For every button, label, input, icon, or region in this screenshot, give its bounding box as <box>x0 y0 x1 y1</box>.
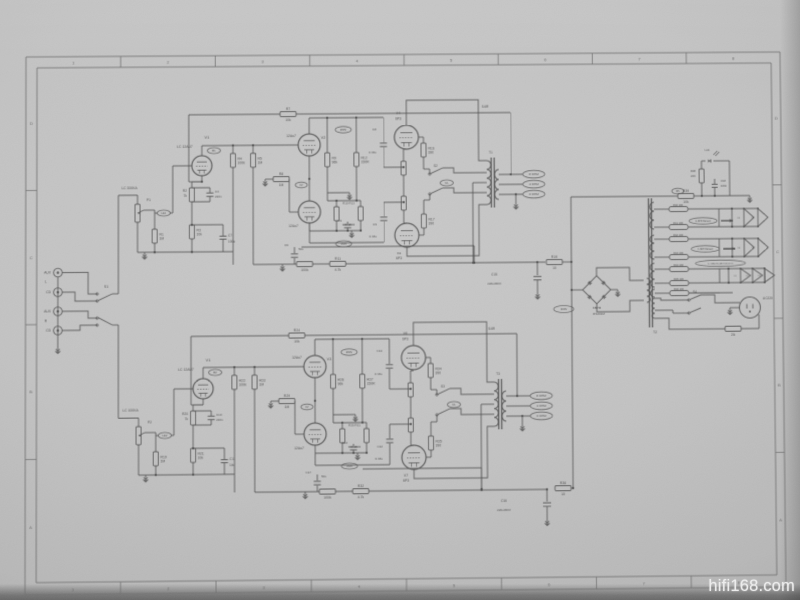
svg-text:T2: T2 <box>653 330 657 334</box>
svg-text:2: 2 <box>167 586 170 591</box>
svg-text:C9: C9 <box>373 222 377 226</box>
svg-text:B: B <box>778 383 781 388</box>
svg-text:2A: 2A <box>731 333 736 337</box>
svg-text:R29: R29 <box>284 394 290 398</box>
svg-text:UL: UL <box>445 181 449 185</box>
svg-text:to 12AU7(12AX7) filament: to 12AU7(12AX7) filament <box>708 262 734 265</box>
svg-text:5.6R: 5.6R <box>488 327 495 331</box>
svg-text:0V: 0V <box>300 183 303 187</box>
svg-text:100k: 100k <box>324 496 332 500</box>
svg-text:LE1: LE1 <box>161 211 166 215</box>
svg-text:V4: V4 <box>396 111 400 115</box>
svg-text:1M: 1M <box>279 183 284 187</box>
svg-text:R11: R11 <box>335 257 341 261</box>
svg-text:390: 390 <box>436 443 442 447</box>
svg-text:6P3: 6P3 <box>395 117 401 121</box>
svg-text:V6: V6 <box>403 332 407 336</box>
svg-text:0 OHM: 0 OHM <box>537 414 547 418</box>
svg-text:4 OHM: 4 OHM <box>537 404 547 408</box>
svg-text:A: A <box>29 525 32 530</box>
svg-text:4.7k: 4.7k <box>335 268 342 272</box>
svg-text:V1: V1 <box>206 357 212 362</box>
svg-text:R8: R8 <box>279 172 283 176</box>
svg-text:7k: 7k <box>183 194 187 198</box>
svg-text:AUX: AUX <box>44 310 52 314</box>
svg-text:3: 3 <box>261 59 264 64</box>
svg-text:150R: 150R <box>367 382 376 386</box>
svg-text:C6: C6 <box>285 243 289 247</box>
svg-text:R: R <box>44 319 47 323</box>
svg-text:V4: V4 <box>737 218 740 220</box>
svg-text:V5: V5 <box>397 251 401 255</box>
svg-text:1M: 1M <box>284 405 289 409</box>
svg-text:V1: V1 <box>204 135 210 140</box>
svg-text:5.6R: 5.6R <box>482 105 489 109</box>
svg-text:R2: R2 <box>183 189 187 193</box>
svg-text:C17: C17 <box>306 470 312 474</box>
svg-text:LC 100KA: LC 100KA <box>122 186 138 190</box>
svg-text:0 OHM: 0 OHM <box>529 192 539 196</box>
svg-text:LC 100KA: LC 100KA <box>123 408 139 412</box>
svg-text:C3: C3 <box>215 190 219 194</box>
svg-text:R24: R24 <box>294 328 300 332</box>
svg-text:R46 100: R46 100 <box>674 287 684 291</box>
svg-text:R20: R20 <box>182 412 188 416</box>
svg-text:6P3: 6P3 <box>396 256 402 260</box>
svg-text:3: 3 <box>263 585 266 590</box>
svg-text:10k: 10k <box>198 456 204 460</box>
svg-text:KBPM: KBPM <box>593 306 602 310</box>
svg-text:C7: C7 <box>228 234 232 238</box>
svg-text:D: D <box>775 116 778 121</box>
svg-text:LC 12AU7: LC 12AU7 <box>177 145 193 149</box>
svg-text:L: L <box>45 280 47 284</box>
svg-text:0.33u: 0.33u <box>375 457 383 461</box>
svg-text:4.7k: 4.7k <box>358 495 365 499</box>
svg-text:C18: C18 <box>721 179 727 183</box>
svg-text:390: 390 <box>435 371 441 375</box>
svg-text:100k: 100k <box>239 383 247 387</box>
svg-text:280V: 280V <box>340 128 347 132</box>
svg-text:C14: C14 <box>377 349 383 353</box>
svg-text:10: 10 <box>561 492 565 496</box>
svg-text:R19: R19 <box>551 255 557 259</box>
svg-text:5: 5 <box>450 58 453 63</box>
svg-text:C10: C10 <box>216 413 222 417</box>
svg-text:V2: V2 <box>321 136 326 140</box>
svg-text:4 OHM: 4 OHM <box>529 182 539 186</box>
svg-text:1M: 1M <box>259 383 264 387</box>
svg-text:R30 R31: R30 R31 <box>348 423 360 427</box>
svg-text:LE2: LE2 <box>162 434 167 438</box>
svg-text:to 6P3 filament: to 6P3 filament <box>695 220 711 223</box>
svg-text:280V: 280V <box>346 350 353 354</box>
svg-text:T1: T1 <box>489 151 493 155</box>
svg-text:C9: C9 <box>338 219 342 223</box>
svg-text:R7: R7 <box>286 107 290 111</box>
svg-text:B1: B1 <box>212 149 216 153</box>
svg-text:R10 R13: R10 R13 <box>343 201 355 205</box>
svg-text:B: B <box>30 389 33 394</box>
svg-text:6: 6 <box>544 57 547 62</box>
svg-text:4: 4 <box>356 58 359 63</box>
svg-text:0.33u: 0.33u <box>369 234 377 238</box>
svg-text:8: 8 <box>732 56 735 61</box>
svg-text:P2: P2 <box>148 420 152 424</box>
svg-text:C15: C15 <box>491 273 497 277</box>
svg-text:V6: V6 <box>738 248 741 250</box>
svg-text:5: 5 <box>453 583 456 588</box>
svg-text:R40 100: R40 100 <box>673 203 683 207</box>
svg-text:100n: 100n <box>721 184 728 188</box>
svg-text:S1: S1 <box>104 285 108 289</box>
svg-text:R44 100: R44 100 <box>674 263 684 267</box>
svg-text:1: 1 <box>72 587 75 592</box>
svg-text:R45 100: R45 100 <box>674 277 684 281</box>
svg-text:C: C <box>30 255 33 260</box>
svg-text:R41 100: R41 100 <box>673 221 683 225</box>
svg-text:UL: UL <box>452 403 456 407</box>
svg-text:6P3: 6P3 <box>403 479 409 483</box>
svg-text:S2: S2 <box>434 164 438 168</box>
svg-text:22K: 22K <box>691 174 696 178</box>
svg-text:12Au7: 12Au7 <box>288 224 298 228</box>
svg-text:8 OHM: 8 OHM <box>537 394 547 398</box>
svg-text:10k: 10k <box>294 340 300 344</box>
svg-text:12Au7: 12Au7 <box>294 446 304 450</box>
svg-text:7k: 7k <box>185 417 189 421</box>
svg-text:C16: C16 <box>501 499 507 503</box>
svg-text:12Au7: 12Au7 <box>286 134 296 138</box>
svg-text:50u: 50u <box>298 247 303 251</box>
svg-text:6P3: 6P3 <box>402 337 408 341</box>
svg-text:LC 12AU7: LC 12AU7 <box>178 368 194 372</box>
svg-text:to 6P3 filament: to 6P3 filament <box>698 248 714 251</box>
svg-text:1M: 1M <box>258 161 263 165</box>
svg-text:R36: R36 <box>560 481 566 485</box>
svg-text:50u: 50u <box>321 474 326 478</box>
svg-text:10k: 10k <box>196 232 202 236</box>
svg-text:220n: 220n <box>215 195 222 199</box>
svg-text:390: 390 <box>428 150 434 154</box>
svg-text:300V: 300V <box>560 307 567 311</box>
svg-text:C: C <box>776 249 779 254</box>
svg-text:C13: C13 <box>342 441 348 445</box>
svg-text:R43 100: R43 100 <box>673 251 683 255</box>
svg-text:RS201M: RS201M <box>593 312 605 316</box>
svg-text:0.33u: 0.33u <box>369 150 377 154</box>
svg-text:8 OHM: 8 OHM <box>529 172 539 176</box>
svg-text:R38: R38 <box>690 169 696 173</box>
svg-text:6: 6 <box>548 582 551 587</box>
svg-text:V7: V7 <box>404 474 408 478</box>
svg-text:10: 10 <box>553 266 557 270</box>
svg-text:7: 7 <box>643 581 646 586</box>
svg-text:B2: B2 <box>213 371 217 375</box>
svg-text:0V: 0V <box>305 405 308 409</box>
svg-text:4: 4 <box>358 584 361 589</box>
svg-text:C12: C12 <box>377 445 383 449</box>
svg-text:V3: V3 <box>327 357 332 361</box>
svg-text:390: 390 <box>428 221 434 225</box>
svg-text:2: 2 <box>167 60 170 65</box>
svg-text:AC220: AC220 <box>763 296 773 300</box>
svg-text:220u450V: 220u450V <box>488 282 502 286</box>
svg-text:D: D <box>30 121 33 126</box>
svg-text:A: A <box>779 517 782 522</box>
svg-text:150R: 150R <box>361 160 370 164</box>
svg-text:P1: P1 <box>147 198 151 202</box>
svg-text:LA1: LA1 <box>705 148 710 152</box>
svg-text:1M: 1M <box>159 237 164 241</box>
svg-text:10k: 10k <box>683 200 689 204</box>
svg-text:AUX: AUX <box>44 271 52 275</box>
svg-text:96k: 96k <box>332 160 338 164</box>
svg-text:S3: S3 <box>441 385 445 389</box>
svg-text:1: 1 <box>72 60 75 65</box>
svg-text:12Au7: 12Au7 <box>292 356 302 360</box>
svg-text:CD: CD <box>46 291 51 295</box>
svg-text:100k: 100k <box>301 268 309 272</box>
svg-text:220u450V: 220u450V <box>497 508 511 512</box>
svg-text:0.33u: 0.33u <box>375 372 383 376</box>
svg-text:7: 7 <box>638 56 641 61</box>
svg-text:96k: 96k <box>338 382 344 386</box>
svg-text:100k: 100k <box>238 161 246 165</box>
svg-text:B5: B5 <box>676 189 680 193</box>
svg-text:10k: 10k <box>285 118 291 122</box>
svg-text:CD: CD <box>46 329 51 333</box>
svg-text:100u: 100u <box>228 240 235 244</box>
svg-text:R42 100: R42 100 <box>673 233 683 237</box>
svg-text:220n: 220n <box>216 418 223 422</box>
svg-text:C8: C8 <box>372 127 376 131</box>
svg-text:1M: 1M <box>160 459 165 463</box>
svg-text:T3: T3 <box>496 372 500 376</box>
svg-text:R32: R32 <box>358 484 364 488</box>
svg-text:V1: V1 <box>734 276 737 278</box>
